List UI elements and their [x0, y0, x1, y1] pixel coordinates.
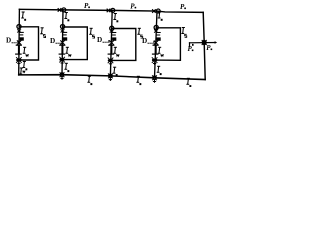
label P pump 2 [130, 2, 136, 10]
junction bar stage4 [152, 45, 159, 54]
label Ib loop junction stage3 [113, 67, 118, 76]
label Ib rail top stage2 [64, 13, 69, 22]
label D input stage3 [97, 36, 109, 44]
junction bar stage1 [15, 45, 22, 54]
label flux below bus after stage2 [87, 76, 92, 85]
label Is box corner stage4 [181, 28, 186, 38]
junction J4 top of stage4 [152, 9, 160, 13]
label D input stage2 [50, 37, 62, 45]
label Is box corner stage2 [89, 28, 94, 38]
label Ib loop junction stage2 [64, 63, 69, 72]
label flux below bus after stage4 [186, 78, 191, 87]
label flux below bus after stage3 [136, 76, 141, 85]
arrow output [215, 41, 218, 44]
label Iw junction bar stage2 [65, 47, 71, 56]
label Ib loop junction stage1 [22, 62, 27, 71]
junction JOUT on right vertical [202, 40, 207, 45]
label P arm left [188, 45, 194, 53]
label Is box corner stage1 [40, 28, 45, 38]
wire rail stage4 [155, 11, 158, 78]
junction J2 top of stage2 [58, 8, 66, 12]
loop junction stage2 [59, 57, 65, 65]
wire rail stage2 [62, 10, 63, 75]
wire top bus [19, 9, 203, 12]
label Idc bottom corner stage1 [19, 68, 25, 74]
wire rail stage3 [110, 10, 112, 76]
transistor island stage1 [17, 29, 24, 44]
node N1 stage1 [17, 25, 21, 29]
label P arm right [206, 44, 212, 52]
tick on output arm [192, 44, 194, 46]
loop junction stage1 [16, 57, 22, 65]
label Ib rail top stage3 [113, 14, 118, 23]
label Ib rail top stage1 [21, 12, 26, 21]
loop junction stage4 [152, 57, 158, 65]
transistor island stage2 [60, 29, 67, 44]
loop junction stage3 [108, 58, 114, 66]
node N3 stage3 [110, 26, 114, 30]
label P pump 1 [84, 2, 90, 10]
wire loop box stage4 [155, 28, 181, 61]
junction bar stage2 [59, 45, 66, 54]
bottom junction stage4 [152, 75, 157, 82]
wire loop box stage1 [19, 27, 39, 60]
label Iw junction bar stage1 [23, 47, 29, 56]
bottom junction stage3 [108, 74, 113, 81]
wire rail stage1 [18, 9, 21, 75]
transistor island stage4 [154, 30, 161, 45]
label D input stage4 [142, 37, 154, 45]
label Is box corner stage3 [137, 28, 142, 38]
label Iw junction bar stage3 [113, 47, 119, 56]
node N4 stage4 [154, 25, 158, 29]
wire loop box stage3 [111, 29, 136, 61]
label D input stage1 [6, 37, 18, 45]
junction bar stage3 [108, 45, 115, 54]
transistor island stage3 [109, 30, 116, 45]
label Iw junction bar stage4 [158, 47, 164, 56]
label Ib loop junction stage4 [157, 66, 162, 75]
wire bottom bus [19, 75, 206, 80]
wire loop box stage2 [62, 27, 87, 60]
wire output stub down [189, 43, 191, 47]
wire output arm [190, 42, 216, 44]
label Ib rail top stage4 [158, 12, 163, 21]
wire right vertical [203, 12, 205, 79]
junction J3 top of stage3 [107, 8, 115, 12]
bottom junction stage2 [60, 72, 65, 79]
node N2 stage2 [61, 25, 65, 29]
label P pump 3 [180, 3, 186, 11]
